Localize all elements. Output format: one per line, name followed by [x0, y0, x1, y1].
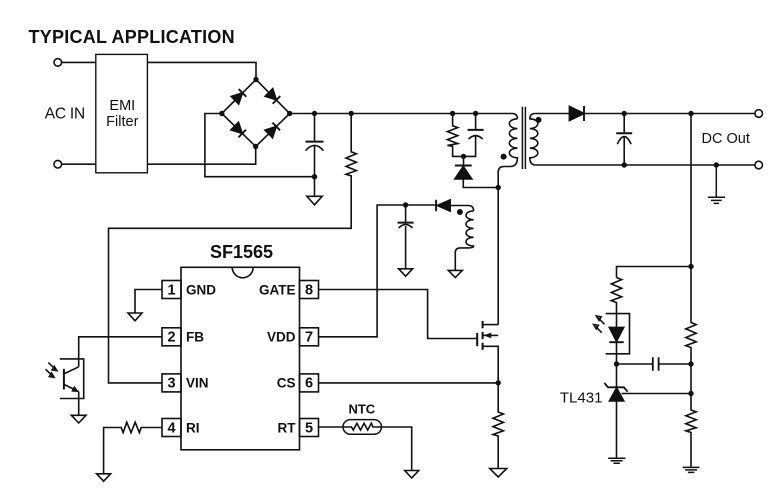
wire output minus rail — [536, 164, 755, 166]
svg-text:VIN: VIN — [186, 376, 209, 391]
node bus R1 — [349, 111, 354, 116]
diode D6 aux bar — [435, 200, 437, 211]
ground arrow below aux winding — [448, 270, 462, 277]
transistor Q1 body arrowhead — [484, 333, 492, 339]
svg-text:SF1565: SF1565 — [210, 242, 273, 262]
svg-text:Filter: Filter — [106, 114, 138, 130]
LED D8 triangle — [609, 327, 623, 341]
node output cap top — [622, 111, 627, 116]
wire AC L to EMI — [62, 61, 96, 63]
svg-text:VDD: VDD — [267, 330, 296, 345]
svg-text:RI: RI — [186, 420, 200, 435]
node bus C1 — [312, 111, 317, 116]
svg-text:6: 6 — [305, 376, 313, 392]
capacitor C4 plate — [616, 132, 632, 134]
pin 5 box — [300, 419, 319, 437]
wire divider mid — [690, 364, 692, 394]
diode D7 output bar — [583, 106, 585, 121]
wire pin6 CS — [319, 382, 498, 384]
node VDD cap — [403, 202, 408, 207]
wire main bus — [290, 114, 518, 119]
resistor R7 divider lower — [686, 394, 696, 467]
wire NTC to ground — [382, 427, 412, 471]
capacitor C3 lead bottom — [405, 226, 407, 269]
wire D6 to aux winding — [450, 206, 473, 211]
node divider ref — [688, 391, 693, 396]
transistor Q1 body lead — [483, 334, 499, 336]
LED D8 bar — [609, 341, 623, 343]
resistor R4 sense — [493, 383, 503, 469]
diode D5 clamp wire from node — [463, 156, 465, 164]
resistor R3 on pin4 RI — [104, 422, 162, 474]
earth ground divider — [683, 467, 700, 472]
resistor R5 opto series — [611, 278, 621, 328]
node C1 bottom — [312, 174, 317, 179]
transistor Q2 emitter arrowhead — [71, 386, 79, 392]
ground arrow below C1 — [307, 177, 322, 205]
wire Q2 emitter to ground — [78, 392, 80, 416]
resistor R6 divider upper — [686, 267, 696, 365]
node feedback tap — [688, 111, 693, 116]
optocoupler Q2 box — [60, 359, 84, 399]
capacitor C4 output lead — [623, 114, 625, 133]
resistor R2 snubber — [447, 114, 463, 157]
diode D5 clamp bar — [455, 165, 472, 167]
bridge BD1 edges — [222, 80, 290, 147]
capacitor C4 lead bottom — [623, 137, 625, 165]
capacitor C2 curved plate — [469, 136, 483, 139]
node bus R2 — [450, 111, 455, 116]
wire pin8 GATE to mosfet — [319, 290, 476, 339]
ground arrow below C3 — [399, 269, 413, 276]
wire EMI to bridge bottom — [147, 147, 255, 165]
transistor Q2 emitter diag with arrow — [65, 385, 79, 392]
wire pin2 FB to optocoupler — [79, 337, 162, 367]
svg-text:AC IN: AC IN — [45, 105, 85, 122]
light arrow into Q2 lower — [46, 369, 55, 377]
pin 2 box — [162, 328, 181, 346]
svg-text:TYPICAL APPLICATION: TYPICAL APPLICATION — [29, 27, 235, 47]
wire EMI to bridge top — [147, 62, 256, 79]
wire VDD from pin7 — [319, 205, 436, 337]
svg-text:GND: GND — [186, 282, 216, 297]
transistor Q1 gate bar — [476, 333, 478, 346]
transistor Q1 channel segments — [482, 321, 484, 350]
node drain — [496, 185, 501, 190]
node divider cap — [688, 361, 693, 366]
svg-text:RT: RT — [278, 420, 297, 435]
thermistor NTC zigzag — [343, 423, 382, 430]
svg-text:EMI: EMI — [109, 98, 135, 114]
pin 4 box — [162, 419, 181, 437]
transistor Q1 drain lead — [483, 324, 499, 326]
svg-text:GATE: GATE — [259, 282, 296, 297]
transformer T1 secondary winding — [530, 114, 538, 166]
terminal DC plus — [755, 110, 763, 118]
wire D5 anode to drain node — [463, 179, 498, 188]
svg-text:1: 1 — [167, 282, 175, 298]
pin 1 box — [162, 281, 181, 299]
transformer T1 aux winding — [455, 211, 473, 271]
node bus C2 — [473, 111, 478, 116]
diode D5 clamp triangle — [455, 166, 472, 179]
svg-text:5: 5 — [305, 420, 313, 436]
wire secondary top to diode — [535, 113, 569, 115]
node bridge top — [253, 77, 258, 82]
thermistor NTC body — [343, 420, 382, 435]
diode D6 aux triangle — [437, 200, 450, 211]
light arrow into Q2 upper — [48, 363, 57, 371]
transformer T1 primary winding — [498, 119, 517, 325]
regulator U2 TL431 bar with hooks — [604, 383, 627, 392]
regulator U2 TL431 cathode lead — [616, 364, 618, 387]
node output cap bottom — [622, 162, 627, 167]
wire AC N to EMI — [62, 163, 96, 165]
op-amp U1 SF1565 body — [181, 267, 300, 450]
ground arrow NTC — [405, 471, 419, 479]
transistor Q1 source lead — [483, 346, 499, 383]
capacitor C1 curved plate — [306, 145, 324, 150]
pin 3 box — [162, 374, 181, 392]
wire pin1 GND — [135, 290, 162, 314]
capacitor C5 comp left wire — [617, 363, 653, 365]
wire feedback branch down — [690, 114, 692, 267]
regulator U2 TL431 triangle — [609, 388, 623, 401]
node opto branch — [688, 264, 693, 269]
svg-text:8: 8 — [305, 282, 313, 298]
regulator U2 TL431 ref wire — [622, 393, 692, 395]
transistor Q2 base bar — [63, 369, 65, 390]
capacitor C3 vdd lead — [405, 205, 407, 222]
optocoupler LED box — [606, 314, 630, 354]
capacitor C1 lead bottom — [314, 146, 316, 177]
U1 notch — [232, 267, 253, 278]
svg-text:7: 7 — [305, 330, 313, 346]
svg-text:CS: CS — [277, 376, 296, 391]
terminal AC L — [54, 59, 62, 67]
svg-text:3: 3 — [167, 376, 175, 392]
EMI filter box — [96, 54, 148, 172]
svg-text:2: 2 — [167, 330, 175, 346]
pin 7 box — [300, 328, 319, 346]
phase dot secondary — [536, 117, 542, 123]
regulator U2 TL431 anode lead — [616, 401, 618, 458]
svg-text:FB: FB — [186, 330, 204, 345]
bridge diode D4 (bottom-right) — [265, 123, 280, 138]
light arrow out of D8 upper — [596, 316, 604, 324]
transformer T1 core — [522, 107, 525, 169]
capacitor C1 plate — [306, 141, 324, 143]
capacitor C2 snubber lead — [475, 114, 477, 130]
node bridge right — [287, 111, 292, 116]
svg-text:4: 4 — [167, 420, 175, 436]
diode D7 output triangle — [569, 106, 584, 120]
pin 8 box — [300, 281, 319, 299]
capacitor C1 bulk lead top — [314, 114, 316, 141]
bridge diode D2 (top-right) — [265, 89, 280, 104]
wire pin5 RT to NTC — [319, 426, 343, 428]
svg-text:DC Out: DC Out — [702, 131, 750, 147]
node LED cathode — [614, 361, 619, 366]
earth ground TL431 — [608, 458, 625, 463]
svg-text:TL431: TL431 — [560, 389, 603, 406]
capacitor C3 plate — [398, 222, 414, 224]
pin 6 box — [300, 374, 319, 392]
capacitor C5 right wire — [659, 363, 691, 365]
phase dot aux — [457, 209, 463, 215]
ground arrow R3 — [97, 474, 111, 481]
capacitor C2 plate — [468, 129, 484, 131]
bridge diode D3 (left-bottom) — [231, 122, 246, 137]
phase dot primary — [501, 154, 507, 160]
wire bridge left loop to cap bottom — [205, 114, 315, 177]
wire output plus rail — [584, 113, 755, 115]
terminal DC minus — [755, 161, 763, 169]
capacitor C4 curved plate — [617, 137, 631, 145]
LED D8 cathode lead — [616, 342, 618, 364]
earth ground DC out — [708, 165, 725, 203]
node CS — [496, 380, 501, 385]
ground arrow R4 — [490, 469, 507, 478]
ground arrow pin1 — [128, 313, 142, 321]
node bridge bottom — [253, 144, 258, 149]
capacitor C3 curved plate — [399, 224, 413, 228]
node snubber RC — [461, 154, 466, 159]
light arrow out of D8 lower — [594, 325, 602, 333]
capacitor C2 lead bottom — [464, 136, 476, 157]
svg-text:NTC: NTC — [348, 401, 375, 416]
wire opto branch — [617, 267, 692, 278]
node bridge left — [219, 111, 224, 116]
resistor R1 startup, wire to VIN — [109, 114, 357, 383]
bridge diode D1 (left-top) — [231, 89, 246, 104]
node output ground — [714, 162, 719, 167]
terminal AC N — [54, 160, 62, 168]
transistor Q2 collector diag — [65, 367, 79, 374]
ground arrow Q2 emitter — [71, 415, 86, 423]
capacitor C5 plates — [653, 357, 659, 371]
